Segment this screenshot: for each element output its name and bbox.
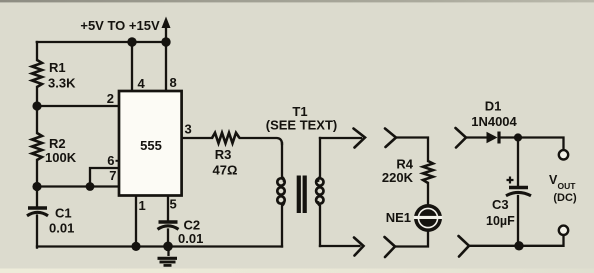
- wire pin2: [37, 105, 119, 107]
- pin 7: [109, 168, 116, 183]
- label NE1: [386, 210, 411, 225]
- junction R1 pin2: [32, 101, 41, 110]
- connector fork R4 top: [385, 129, 396, 148]
- wire top rail: [37, 41, 167, 43]
- wire D1 section top: [466, 138, 564, 151]
- wire pin8 lead: [165, 42, 167, 91]
- svg-text:7: 7: [109, 168, 116, 183]
- svg-text:8: 8: [170, 75, 177, 90]
- resistor R3: [212, 133, 240, 143]
- wire pin3 to R3 to T1: [182, 138, 283, 144]
- label C3 value: [486, 197, 515, 228]
- transformer T1 core: [297, 176, 307, 214]
- svg-text:10µF: 10µF: [486, 214, 515, 228]
- svg-text:R2: R2: [49, 136, 66, 151]
- pin 1: [139, 198, 146, 213]
- svg-text:(DC): (DC): [553, 192, 577, 204]
- terminal bottom right: [559, 226, 568, 235]
- svg-text:2: 2: [107, 91, 114, 106]
- junction top pin8: [161, 37, 170, 46]
- svg-text:OUT: OUT: [558, 181, 577, 191]
- svg-text:47Ω: 47Ω: [213, 163, 238, 178]
- junction ground: [163, 242, 173, 252]
- label C2 value: [178, 217, 203, 246]
- pin 2: [107, 91, 114, 106]
- svg-text:NE1: NE1: [386, 210, 411, 225]
- svg-text:D1: D1: [485, 99, 502, 114]
- transformer T1 secondary coil: [316, 177, 323, 206]
- wire T1 primary leads: [281, 143, 283, 247]
- svg-text:5: 5: [170, 197, 177, 212]
- label R4 value: [382, 157, 414, 186]
- label R2 value: [45, 136, 77, 165]
- capacitor C2: [158, 222, 179, 229]
- svg-text:3.3K: 3.3K: [48, 76, 76, 91]
- terminal top right: [559, 150, 568, 159]
- svg-text:0.01: 0.01: [178, 231, 203, 246]
- wire R4 to NE1: [427, 183, 429, 205]
- connector fork R4 bottom: [385, 237, 396, 257]
- svg-text:6: 6: [107, 153, 114, 168]
- connector arrow secondary top: [354, 129, 366, 148]
- capacitor C3: [506, 177, 531, 196]
- svg-text:100K: 100K: [45, 150, 77, 165]
- wire left rail: [36, 42, 38, 248]
- junction pin6 pin7: [86, 182, 95, 191]
- label T1: [266, 104, 338, 133]
- svg-text:(SEE TEXT): (SEE TEXT): [266, 118, 338, 133]
- connector fork D1 bottom: [459, 236, 470, 257]
- wire T1 secondary leads: [319, 138, 321, 246]
- connector arrow secondary bottom: [354, 238, 364, 256]
- label D1 value: [471, 99, 517, 130]
- wire secondary top to arrow: [320, 137, 361, 139]
- svg-text:555: 555: [140, 138, 162, 153]
- pin 8: [170, 75, 177, 90]
- transformer T1 primary coil: [277, 177, 284, 206]
- resistor R2: [32, 133, 42, 160]
- svg-text:1: 1: [139, 198, 146, 213]
- svg-text:0.01: 0.01: [49, 221, 74, 236]
- resistor R1: [32, 60, 42, 87]
- svg-text:C3: C3: [492, 197, 509, 212]
- wire secondary bottom to arrow: [320, 245, 360, 247]
- pin 4: [138, 76, 146, 91]
- junction R2 C1: [32, 182, 41, 191]
- label R1 value: [48, 60, 76, 91]
- svg-text:C1: C1: [55, 206, 72, 221]
- wire bottom right: [469, 235, 564, 246]
- wire pin4 lead: [131, 42, 133, 91]
- label C1 value: [49, 206, 74, 236]
- junction top pin4: [127, 37, 136, 46]
- svg-text:3: 3: [185, 122, 192, 137]
- IC U1 555: [119, 91, 182, 196]
- wire pin5 lead: [167, 196, 169, 247]
- wire C3 branch: [517, 138, 519, 246]
- power +5V arrow: [80, 17, 170, 43]
- junction D1 C3: [514, 133, 522, 141]
- resistor R4: [423, 161, 433, 183]
- svg-text:R3: R3: [215, 147, 232, 162]
- label VOUT: [549, 173, 577, 204]
- ground: [158, 247, 178, 266]
- svg-text:+5V TO +15V: +5V TO +15V: [80, 18, 160, 33]
- wire bottom rail: [37, 245, 282, 247]
- connector fork D1 top: [456, 128, 467, 148]
- capacitor C1: [27, 208, 48, 216]
- pin 6: [107, 153, 119, 168]
- wire R4 section top: [396, 138, 428, 162]
- wire pin7: [37, 185, 119, 187]
- wire pin1 lead: [135, 196, 137, 247]
- svg-text:R1: R1: [49, 60, 66, 75]
- wire NE1 bottom: [395, 231, 428, 247]
- pin 3: [185, 122, 192, 137]
- svg-text:1N4004: 1N4004: [471, 114, 517, 129]
- wire pin6 loop: [90, 168, 119, 187]
- neon lamp NE1: [414, 204, 443, 232]
- junction C3 bottom: [514, 241, 523, 250]
- svg-text:220K: 220K: [382, 170, 414, 185]
- diode D1: [487, 132, 500, 144]
- pin 5: [170, 197, 177, 212]
- svg-text:4: 4: [138, 76, 146, 91]
- junction pin1 bottom: [131, 242, 140, 251]
- label R3 value: [213, 147, 238, 178]
